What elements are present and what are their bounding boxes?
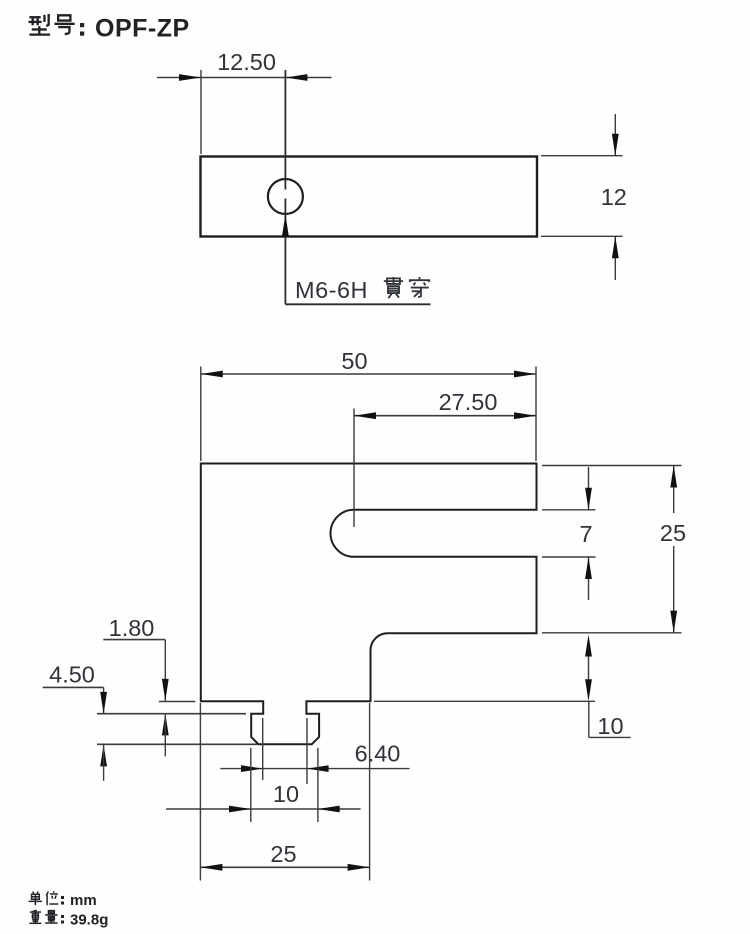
dim 10 right arrow down	[585, 679, 592, 701]
dim 25 bottom extension left	[199, 703, 201, 881]
dim 25 right step extension	[542, 632, 682, 634]
label char 贯	[384, 277, 403, 298]
leader underline	[285, 303, 430, 305]
svg-text:OPF-ZP: OPF-ZP	[95, 15, 190, 43]
hole circle M6	[268, 179, 303, 214]
dim 10 bottom arrow left	[229, 806, 251, 813]
dim 6.40 extension left	[262, 718, 264, 780]
dim 1.80 arrow up	[162, 713, 169, 735]
dim 50 arrow right	[514, 371, 536, 378]
dim 10 bottom extension left	[250, 748, 252, 822]
extension lip level	[97, 713, 246, 715]
svg-text:7: 7	[579, 521, 592, 547]
footer char 单	[29, 892, 42, 906]
dim 25 bottom arrow right	[348, 864, 370, 871]
dim 50 extension left	[200, 367, 202, 462]
title fullwidth colon	[80, 23, 84, 36]
dim 4.50 stem down	[103, 687, 105, 714]
svg-text:50: 50	[341, 348, 367, 374]
dim 10 right arrow up	[585, 635, 592, 657]
dim 1.80 underline	[103, 639, 165, 641]
dim 1.80 stem down	[164, 640, 166, 701]
dim 10 right leader vertical	[588, 701, 590, 737]
footer char 重	[29, 910, 41, 923]
part profile outline	[201, 464, 537, 745]
svg-text:10: 10	[597, 713, 623, 739]
dim 12.50 dimension line	[157, 77, 332, 79]
dim 4.50 arrow up	[100, 744, 107, 766]
dim 25 right top extension	[542, 465, 682, 467]
svg-text:12: 12	[601, 184, 627, 210]
dim 50 extension right	[535, 367, 537, 462]
dim 25 right arrow up	[670, 466, 677, 488]
dim 7 stem bottom	[588, 557, 590, 600]
dim 7 extension bottom	[542, 556, 596, 558]
dim 12.50 arrow left	[179, 74, 201, 81]
dim 25 right stem lower	[673, 546, 675, 633]
svg-text:27.50: 27.50	[439, 389, 498, 415]
svg-text:6.40: 6.40	[355, 741, 401, 767]
footer char 量	[45, 911, 57, 923]
dim 27.50 arrow left	[354, 412, 376, 419]
dim 10 right leader horizontal	[589, 736, 631, 738]
centerline through hole lower / leader line	[284, 199, 286, 305]
dim 4.50 stem up-arrow tail	[103, 744, 105, 780]
dim 25 right arrow down	[670, 611, 677, 633]
dim 25 bottom dimension line	[200, 866, 369, 868]
leader arrow to hole	[282, 215, 289, 237]
dim 6.40 arrow right	[307, 765, 329, 772]
dim 27.50 arrow right	[514, 412, 536, 419]
svg-text:25: 25	[270, 841, 296, 867]
dim 10 bottom arrow right	[318, 806, 340, 813]
svg-text:12.50: 12.50	[217, 49, 276, 75]
dim 10 right bottom extension	[374, 700, 595, 702]
label char 穿	[410, 277, 429, 297]
footer colon 1	[61, 896, 64, 905]
dim 6.40 extension right	[306, 718, 308, 784]
dim 12 arrow top	[612, 134, 619, 156]
dim 4.50 underline	[43, 686, 104, 688]
dim 7 stem top	[588, 467, 590, 510]
dim 25 right stem upper	[673, 466, 675, 514]
title char 型	[28, 14, 50, 35]
dim 1.80 stem up-arrow tail	[164, 713, 166, 756]
dim 7 arrow top	[585, 488, 592, 510]
dim 12.50 arrow right	[285, 74, 307, 81]
dim 12 extension top	[541, 155, 623, 157]
dim 1.80 arrow down	[162, 679, 169, 701]
svg-text:10: 10	[273, 781, 299, 807]
dim 7 arrow bottom	[585, 557, 592, 579]
dim 12 arrow stem bottom	[614, 236, 616, 280]
dim 10 bottom extension right	[317, 748, 319, 822]
dim 50 dimension line	[201, 373, 536, 375]
title char 号	[54, 15, 74, 34]
dim 50 arrow left	[201, 371, 223, 378]
dim 7 extension top	[542, 509, 596, 511]
dim 6.40 arrow left	[241, 765, 263, 772]
svg-text:4.50: 4.50	[49, 662, 95, 688]
dim 6.40 dimension line	[220, 768, 409, 770]
svg-text:25: 25	[660, 520, 686, 546]
dim 4.50 arrow down	[100, 692, 107, 714]
dim 27.50 dimension line	[354, 415, 536, 417]
extension bottom surface left	[159, 701, 196, 703]
dim 12 extension bottom	[541, 235, 623, 237]
top view rectangle body	[201, 157, 538, 237]
centerline through hole upper	[284, 70, 286, 190]
svg-text:39.8g: 39.8g	[70, 912, 108, 929]
svg-text:mm: mm	[70, 892, 97, 909]
dim 12 arrow bottom	[612, 236, 619, 258]
footer colon 2	[61, 915, 64, 924]
dim 10 right stem	[588, 652, 590, 683]
svg-text:1.80: 1.80	[109, 615, 155, 641]
dim 10 bottom dimension line	[166, 808, 361, 810]
dim 12 arrow stem top	[614, 114, 616, 156]
dim 27.50 extension at slot center	[353, 409, 355, 528]
footer char 位	[46, 891, 58, 905]
dim 25 bottom extension right	[369, 703, 371, 881]
dim 25 bottom arrow left	[200, 864, 222, 871]
dim 12.50 extension line left	[200, 70, 202, 154]
svg-text:M6-6H: M6-6H	[295, 277, 368, 303]
extension rail bottom level	[97, 743, 258, 745]
